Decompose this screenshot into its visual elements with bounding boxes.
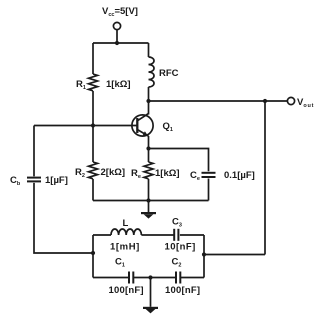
- label C1: [115, 257, 125, 269]
- ground lower: [143, 278, 158, 314]
- wire RFC top lead: [148, 43, 150, 57]
- node tank right tap: [202, 252, 206, 256]
- wire emitter lead: [148, 136, 150, 149]
- svg-text:1[µF]: 1[µF]: [45, 175, 68, 186]
- wire base: [34, 125, 137, 127]
- label RFC: [159, 68, 179, 79]
- capacitor Ce plates: [202, 173, 216, 177]
- wire Cb bottom lead: [34, 183, 93, 253]
- svg-text:RFC: RFC: [159, 68, 179, 79]
- label Re value 1[kΩ]: [155, 168, 180, 179]
- svg-text:R2: R2: [75, 167, 85, 179]
- wire bottom rail: [93, 200, 209, 202]
- label Cb value 1[µF]: [45, 175, 68, 186]
- capacitor C2 plates: [176, 272, 180, 284]
- label L: [123, 218, 129, 229]
- inductor RFC: [149, 57, 155, 87]
- label Ce value 0.1[µF]: [224, 170, 255, 181]
- resistor Re: [144, 162, 153, 179]
- node ground tap: [146, 198, 150, 202]
- label Re: [131, 168, 141, 180]
- node tank bottom junction: [148, 275, 152, 279]
- wire Re top lead: [148, 149, 150, 163]
- node base junction: [91, 123, 95, 127]
- wire R2 top lead: [92, 126, 94, 163]
- svg-text:Vout: Vout: [297, 97, 314, 109]
- svg-text:2[kΩ]: 2[kΩ]: [101, 167, 126, 178]
- ground upper: [141, 201, 156, 219]
- capacitor Cb plates: [27, 178, 41, 182]
- wire RFC bottom lead: [148, 87, 150, 101]
- svg-text:100[nF]: 100[nF]: [165, 285, 200, 296]
- wire tank top left segment: [93, 234, 111, 236]
- wire emitter to Ce: [149, 149, 209, 172]
- label C1 value 100[nF]: [109, 285, 144, 296]
- label C2: [172, 257, 182, 269]
- label Q1: [163, 121, 173, 133]
- wire tank bottom left segment: [93, 277, 128, 279]
- label R1 value 1[kΩ]: [106, 79, 131, 90]
- wire Vcc stem: [116, 30, 118, 43]
- wire Re bottom lead: [148, 179, 150, 201]
- wire R2 bottom lead: [92, 179, 94, 201]
- label R2: [75, 167, 85, 179]
- terminal Vcc: [113, 22, 120, 29]
- svg-text:C3: C3: [172, 217, 182, 229]
- svg-text:1[kΩ]: 1[kΩ]: [106, 79, 131, 90]
- wire Cb top lead: [33, 126, 35, 177]
- wire R1 bottom lead: [92, 91, 94, 126]
- capacitor C3 plates: [174, 229, 178, 241]
- capacitor C1 plates: [129, 272, 133, 284]
- wire tank left side: [92, 235, 94, 278]
- svg-text:R1: R1: [76, 79, 86, 91]
- wire tank top right segment: [180, 234, 204, 236]
- wire Vout line: [149, 100, 288, 102]
- wire tank right side: [203, 235, 205, 278]
- label Ce: [190, 170, 200, 182]
- node feedback tap: [263, 99, 267, 103]
- label C2 value 100[nF]: [165, 285, 200, 296]
- wire collector lead: [148, 101, 150, 115]
- wire tank bottom middle segment: [134, 277, 175, 279]
- svg-text:100[nF]: 100[nF]: [109, 285, 144, 296]
- label Cb: [10, 175, 21, 187]
- svg-text:Ce: Ce: [190, 170, 200, 182]
- svg-text:1[kΩ]: 1[kΩ]: [155, 168, 180, 179]
- wire feedback vertical: [264, 101, 266, 255]
- svg-text:Vcc=5[V]: Vcc=5[V]: [102, 6, 138, 18]
- svg-text:C2: C2: [172, 257, 182, 269]
- label Vout: [297, 97, 314, 109]
- svg-text:L: L: [123, 218, 129, 229]
- label L value 1[mH]: [110, 242, 140, 253]
- svg-text:C1: C1: [115, 257, 125, 269]
- svg-text:10[nF]: 10[nF]: [165, 242, 196, 253]
- wire tank top middle segment: [141, 234, 173, 236]
- node top rail junction: [115, 41, 119, 45]
- resistor R1: [89, 74, 98, 91]
- node tank left tap: [91, 251, 95, 255]
- transistor Q1: [132, 114, 153, 137]
- resistor R2: [89, 162, 98, 179]
- node collector junction: [146, 99, 150, 103]
- label C3: [172, 217, 182, 229]
- terminal Vout: [287, 97, 294, 104]
- label Vcc=5[V]: [102, 6, 138, 18]
- label R1: [76, 79, 86, 91]
- inductor L: [111, 229, 141, 235]
- label R2 value 2[kΩ]: [101, 167, 126, 178]
- svg-text:Cb: Cb: [10, 175, 21, 187]
- wire Ce bottom lead: [208, 179, 210, 201]
- node emitter junction: [146, 146, 150, 150]
- wire top rail: [93, 42, 149, 44]
- label C3 value 10[nF]: [165, 242, 196, 253]
- svg-text:Re: Re: [131, 168, 141, 180]
- wire feedback horizontal: [204, 254, 265, 256]
- wire R1 top lead: [92, 43, 94, 74]
- svg-text:Q1: Q1: [163, 121, 173, 133]
- svg-text:1[mH]: 1[mH]: [110, 242, 140, 253]
- svg-text:0.1[µF]: 0.1[µF]: [224, 170, 255, 181]
- wire tank bottom right segment: [181, 277, 204, 279]
